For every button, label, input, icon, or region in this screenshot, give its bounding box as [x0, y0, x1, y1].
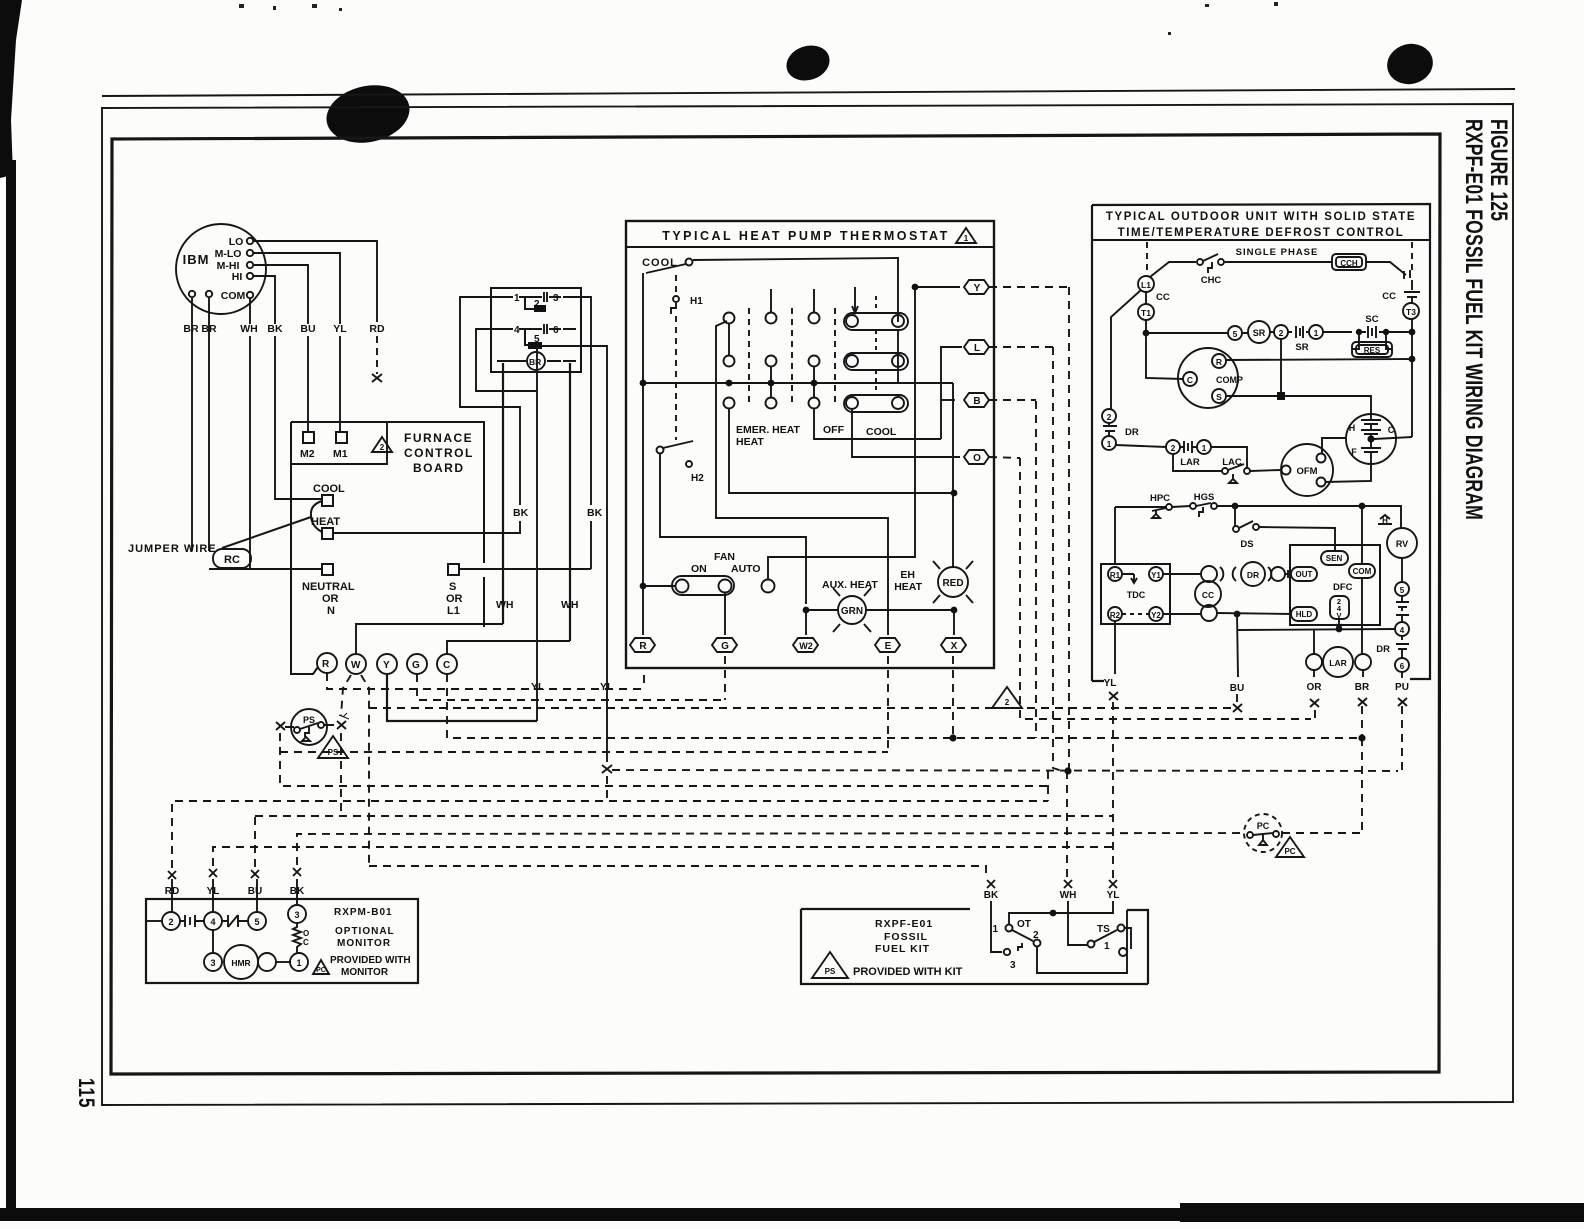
- field wire G row: [417, 656, 725, 700]
- svg-text:BK: BK: [290, 886, 305, 897]
- wire M-LO to M1 (YL): [253, 253, 340, 324]
- svg-text:RV: RV: [1396, 539, 1408, 549]
- plug pair lower: [1201, 605, 1217, 621]
- wire pin5 to YL2: [541, 346, 607, 762]
- svg-text:WH: WH: [1060, 890, 1077, 901]
- switch TS: [1088, 941, 1095, 948]
- svg-text:5: 5: [534, 334, 540, 345]
- fan motor OFM: [1281, 444, 1333, 496]
- svg-text:H: H: [1349, 423, 1356, 433]
- wire BR2 to RC: [208, 297, 210, 551]
- plug connector box: [491, 288, 581, 372]
- OT top line to YL: [1009, 901, 1113, 924]
- wire BK into OT 3: [991, 901, 1002, 952]
- hex terminal O: [964, 450, 989, 464]
- junction square S-2: [1280, 339, 1282, 396]
- svg-text:6: 6: [553, 325, 559, 336]
- field wire YL monitor row: [213, 847, 1113, 866]
- field wire E row: [280, 656, 888, 752]
- top wire with CHC: [1150, 262, 1332, 277]
- svg-text:TYPICAL OUTDOOR UNIT WITH SOLI: TYPICAL OUTDOOR UNIT WITH SOLID STATE: [1106, 211, 1416, 223]
- monitor column solid stubs: [172, 879, 297, 912]
- reversing valve RV: [1387, 528, 1417, 558]
- svg-text:OR: OR: [322, 593, 339, 605]
- terminal NEUTRAL: [322, 564, 333, 575]
- svg-text:Y2: Y2: [1151, 611, 1161, 620]
- bus junction dots: [640, 380, 818, 387]
- motor terminal M-HI: [247, 262, 253, 268]
- hex terminal R: [630, 638, 655, 652]
- outdoor title: [1106, 211, 1416, 258]
- svg-text:NEUTRAL: NEUTRAL: [302, 581, 355, 593]
- svg-text:LO: LO: [229, 236, 244, 248]
- svg-text:COMP: COMP: [1216, 375, 1243, 385]
- terminal T3: [1403, 303, 1419, 319]
- svg-text:W2: W2: [799, 641, 813, 651]
- hex terminal L: [964, 340, 989, 354]
- svg-text:G: G: [721, 641, 729, 652]
- svg-text:2: 2: [1107, 412, 1112, 422]
- wire W stem to WH1: [356, 624, 503, 654]
- svg-text:HEAT: HEAT: [894, 581, 922, 593]
- wire S/L1 to BK2: [459, 568, 591, 570]
- svg-text:BK: BK: [984, 890, 999, 901]
- hex terminal B: [964, 393, 989, 407]
- svg-text:W: W: [351, 660, 361, 671]
- sensor SEN: [1321, 551, 1348, 565]
- warning triangle 1 thermostat: [956, 228, 976, 243]
- crankcase heater CCH: [1332, 254, 1366, 270]
- furnace terminal R: [317, 653, 337, 673]
- svg-text:JUMPER WIRE: JUMPER WIRE: [128, 543, 217, 555]
- svg-text:COM: COM: [221, 290, 246, 302]
- switch HGS: [1196, 503, 1211, 517]
- monitor terminal 3b: [204, 953, 222, 971]
- svg-text:M1: M1: [333, 448, 348, 460]
- svg-text:SINGLE PHASE: SINGLE PHASE: [1236, 247, 1319, 258]
- svg-text:BU: BU: [1230, 683, 1244, 694]
- svg-text:RD: RD: [369, 323, 385, 335]
- wire L1 to T1: [1145, 292, 1147, 304]
- monitor terminal 4: [204, 912, 222, 930]
- motor terminal COM: [247, 292, 253, 298]
- junction dots pressure bus: [1232, 503, 1239, 510]
- svg-text:YL: YL: [1107, 890, 1120, 901]
- svg-text:O: O: [973, 453, 981, 464]
- svg-text:M2: M2: [300, 448, 315, 460]
- field wire PC to BR: [1282, 832, 1362, 834]
- wire RED column: [952, 383, 954, 567]
- terminal HLD: [1291, 607, 1317, 621]
- wire WH1 connector to W: [502, 363, 504, 624]
- LAR bypass: [1173, 454, 1222, 471]
- wire DS to SEN: [1259, 527, 1335, 551]
- svg-text:RD: RD: [165, 886, 179, 897]
- 24V tap: [1330, 596, 1349, 619]
- svg-text:2: 2: [1171, 443, 1176, 453]
- compressor COMP: [1178, 348, 1238, 408]
- svg-text:C: C: [1187, 375, 1193, 385]
- svg-text:PC: PC: [316, 967, 326, 974]
- svg-text:HGS: HGS: [1194, 492, 1215, 503]
- svg-text:2: 2: [1033, 930, 1039, 941]
- resistor RES: [1352, 332, 1392, 349]
- svg-text:1: 1: [1104, 941, 1110, 952]
- wire OFM H lead: [1322, 438, 1347, 454]
- monitor terminal 3 (BK): [288, 905, 306, 923]
- dashed L1 lead: [1146, 242, 1148, 275]
- wire Y1 to plug: [1163, 573, 1201, 575]
- right column 5-4-DR-6: [1401, 558, 1403, 582]
- binder hole smudge center: [782, 40, 834, 86]
- connector pin 2 stub: [525, 297, 536, 309]
- wire M-HI to M2 (BU): [253, 265, 308, 324]
- thermostat title rule: [626, 246, 994, 248]
- inner figure frame: [111, 134, 1440, 1074]
- outer page rule top: [102, 89, 1515, 96]
- wire pin3 to BK2: [576, 297, 591, 505]
- start relay bus: [1146, 332, 1412, 333]
- svg-text:HLD: HLD: [1296, 610, 1313, 619]
- wire color labels motor: [183, 236, 385, 566]
- hex terminal X: [941, 638, 966, 652]
- svg-text:Y: Y: [974, 283, 981, 294]
- svg-text:COOL: COOL: [866, 426, 897, 438]
- svg-text:TS: TS: [1097, 924, 1110, 935]
- svg-text:SC: SC: [1365, 314, 1378, 325]
- svg-text:OFM: OFM: [1296, 466, 1317, 477]
- kit column labels: [984, 890, 1120, 901]
- contact bars 2-4: [180, 915, 204, 927]
- svg-text:LAR: LAR: [1180, 457, 1200, 468]
- svg-text:CCH: CCH: [1340, 259, 1358, 268]
- field wire O-OR row: [1020, 458, 1315, 719]
- svg-text:PC: PC: [1257, 821, 1270, 831]
- field wire PU riser: [1401, 706, 1403, 771]
- svg-text:R: R: [322, 659, 330, 670]
- svg-text:1: 1: [1202, 443, 1207, 453]
- wire B hex stub: [941, 399, 955, 401]
- terminal M1: [336, 432, 347, 443]
- outer page frame: [102, 104, 1513, 1105]
- svg-text:BR: BR: [1355, 682, 1370, 693]
- heater symbol RV: [1378, 515, 1392, 524]
- defrost relay DR: [1233, 567, 1236, 581]
- svg-text:O: O: [303, 929, 309, 938]
- svg-text:S: S: [1216, 392, 1222, 402]
- mode contacts row3: [724, 398, 735, 409]
- svg-text:RC: RC: [224, 554, 240, 566]
- mode switch wiper dashes: [749, 308, 835, 404]
- svg-text:COM: COM: [1353, 567, 1372, 576]
- svg-text:T3: T3: [1406, 307, 1416, 317]
- svg-text:PS: PS: [303, 715, 315, 725]
- bottom scan bar: [0, 1208, 1584, 1221]
- svg-text:COOL: COOL: [313, 483, 345, 495]
- wire pin4 to YL1: [476, 329, 537, 391]
- lamp RED: [938, 567, 968, 597]
- field wire L-PS row: [280, 347, 1062, 786]
- svg-text:3: 3: [553, 293, 559, 304]
- wire RD lead with x: [376, 336, 378, 374]
- fan AUTO contact: [762, 580, 775, 593]
- field wire Y-BU row: [369, 708, 1233, 721]
- plug pair upper: [1201, 566, 1217, 582]
- svg-text:N: N: [327, 605, 335, 617]
- svg-text:AUX. HEAT: AUX. HEAT: [822, 579, 878, 591]
- fan capacitor: [1346, 414, 1396, 464]
- svg-text:1: 1: [1314, 328, 1319, 338]
- TDC R2-Y2 dashes: [1122, 613, 1149, 615]
- binder hole smudge left: [321, 78, 415, 150]
- svg-text:GRN: GRN: [841, 606, 863, 617]
- outdoor drop labels: [1104, 678, 1409, 694]
- wire neutral: [210, 568, 322, 570]
- lamp BR: [527, 352, 545, 370]
- svg-text:1: 1: [992, 924, 998, 935]
- mode contacts row1: [724, 313, 735, 324]
- OT 2 to box loop: [1037, 910, 1127, 973]
- wire R to rail: [1226, 359, 1412, 360]
- svg-text:5: 5: [254, 917, 259, 927]
- wire HI to COOL (BK): [253, 276, 275, 324]
- junction dot Y: [912, 284, 919, 291]
- warning triangle 2 furnace: [372, 437, 392, 452]
- jumper callout arrow: [222, 517, 311, 548]
- svg-text:RXPM-B01: RXPM-B01: [334, 907, 393, 918]
- contact SR: [1296, 326, 1303, 338]
- field wire W split right: [361, 675, 369, 866]
- wire LAR to LAC: [1211, 447, 1247, 468]
- wire T1 to bus: [1145, 320, 1147, 333]
- terminal L1: [1138, 276, 1154, 292]
- svg-text:HPC: HPC: [1150, 493, 1170, 504]
- lockout relay LAR assembly: [1306, 654, 1322, 670]
- outdoor unit box: [1092, 204, 1430, 681]
- wire OFF stem to B: [814, 409, 941, 439]
- svg-text:X: X: [951, 641, 958, 652]
- svg-text:PU: PU: [1395, 682, 1409, 693]
- svg-text:LAC: LAC: [1222, 457, 1242, 468]
- svg-text:CC: CC: [1156, 292, 1170, 303]
- wire YL1 to Y terminal: [387, 674, 537, 721]
- R bus: [643, 382, 953, 384]
- wire Y hex to AUTO: [768, 287, 960, 580]
- switch HPC: [1152, 508, 1166, 518]
- G stem: [724, 593, 726, 635]
- hex terminal W2: [793, 638, 818, 652]
- wire S to fan cap: [1226, 396, 1371, 414]
- wire LAC to OFM: [1250, 470, 1281, 471]
- start relay SR: [1248, 321, 1270, 343]
- wire pin1 to BK1: [460, 297, 520, 505]
- wire WH2 connector to C: [569, 363, 571, 641]
- oval column wire down: [897, 330, 899, 383]
- wire COOL to oval column: [693, 258, 898, 322]
- wire COM to neutral (WH): [249, 298, 251, 324]
- svg-text:B: B: [973, 396, 980, 407]
- svg-text:L1: L1: [1141, 280, 1151, 290]
- run capacitor RC: [213, 549, 251, 568]
- wire WH into TS: [1068, 901, 1087, 945]
- svg-text:PROVIDED WITH: PROVIDED WITH: [330, 955, 411, 966]
- svg-text:3: 3: [210, 958, 215, 968]
- svg-text:S: S: [449, 581, 456, 593]
- terminal OUT: [1291, 567, 1317, 581]
- svg-text:2: 2: [1005, 698, 1010, 707]
- svg-text:ON: ON: [691, 563, 707, 575]
- svg-text:C: C: [303, 938, 309, 947]
- svg-text:SR: SR: [1253, 328, 1266, 338]
- terminal 5: [1228, 326, 1242, 340]
- svg-text:YL: YL: [1104, 678, 1117, 689]
- defrost control DFC box: [1290, 545, 1380, 625]
- X stem: [953, 610, 955, 635]
- wire bus to RV: [1362, 506, 1401, 528]
- svg-text:4: 4: [1400, 626, 1405, 635]
- wire BU drop: [1237, 614, 1238, 677]
- column links: [729, 323, 814, 397]
- connector pin 5 stub: [525, 329, 534, 345]
- motor terminal HI: [247, 273, 253, 279]
- wire 24V bottom line: [1238, 629, 1395, 630]
- svg-text:CC: CC: [1382, 291, 1396, 302]
- svg-text:115: 115: [73, 1078, 98, 1108]
- blower motor IBM: [176, 224, 266, 314]
- switch OT: [1006, 925, 1013, 932]
- svg-text:1: 1: [964, 234, 969, 243]
- terminal COM: [1349, 564, 1375, 578]
- top scan specks: [239, 2, 1278, 35]
- wire cap to rail: [1374, 437, 1412, 439]
- svg-text:FURNACE: FURNACE: [404, 431, 473, 445]
- svg-text:G: G: [412, 660, 420, 671]
- svg-text:HMR: HMR: [231, 958, 250, 968]
- wire HEAT to BK1: [333, 532, 521, 534]
- contact 2-DR-1: [1102, 409, 1116, 423]
- wire C stem to WH2: [447, 641, 570, 654]
- svg-text:H1: H1: [690, 296, 703, 307]
- wire L hex column: [941, 347, 962, 439]
- svg-text:MONITOR: MONITOR: [341, 967, 389, 978]
- svg-text:6: 6: [1400, 662, 1405, 671]
- motor terminal M-LO: [247, 250, 253, 256]
- lamp line W2-GRN-RED-X: [806, 609, 954, 611]
- svg-text:OFF: OFF: [823, 424, 845, 436]
- svg-text:BK: BK: [513, 507, 529, 519]
- pressure control PC: [1244, 814, 1282, 852]
- svg-text:E: E: [885, 641, 892, 652]
- capacitor CC right: [1404, 292, 1420, 303]
- warning triangle PC: [1276, 837, 1304, 857]
- dashed field wiring web: [172, 287, 1402, 878]
- svg-text:PROVIDED WITH KIT: PROVIDED WITH KIT: [853, 966, 963, 978]
- svg-text:4: 4: [514, 325, 520, 336]
- furnace terminal W: [346, 654, 366, 674]
- furnace terminal C: [437, 654, 457, 674]
- furnace control board box: [291, 422, 484, 674]
- terminal M2: [303, 432, 314, 443]
- svg-text:AUTO: AUTO: [731, 563, 761, 575]
- wire 2 into box edge: [146, 920, 162, 922]
- svg-text:H: H: [1382, 516, 1388, 525]
- terminal 3 mark: [1404, 270, 1412, 290]
- svg-text:OPTIONAL: OPTIONAL: [335, 926, 395, 937]
- motor terminal BR2: [206, 291, 212, 297]
- contact SC: [1356, 329, 1362, 335]
- svg-text:TYPICAL HEAT PUMP THERMOSTAT: TYPICAL HEAT PUMP THERMOSTAT: [662, 229, 950, 243]
- x marks kit columns: [987, 880, 995, 888]
- svg-text:RXPF-E01: RXPF-E01: [875, 918, 933, 930]
- kit box RXPF-E01: [801, 909, 1148, 984]
- field wire Y node row: [612, 287, 1398, 878]
- binder hole smudge right: [1383, 39, 1437, 89]
- connector BR lamp row: [497, 360, 576, 362]
- svg-text:BR: BR: [529, 357, 541, 367]
- svg-text:DR: DR: [1376, 644, 1390, 655]
- x marks monitor columns: [168, 871, 176, 879]
- svg-text:Y: Y: [383, 660, 390, 671]
- svg-text:HEAT: HEAT: [311, 516, 340, 528]
- svg-text:PC: PC: [1284, 847, 1295, 856]
- field wire BK monitor PC row: [297, 833, 1244, 865]
- left rail R: [642, 273, 644, 635]
- svg-text:M-LO: M-LO: [215, 248, 242, 260]
- svg-text:Y1: Y1: [1151, 571, 1161, 580]
- right rail T3 down: [1411, 319, 1413, 437]
- junction dots lamp line: [803, 607, 810, 614]
- svg-text:RED: RED: [942, 578, 963, 589]
- svg-text:C: C: [443, 660, 450, 671]
- wire LO to RD column: [253, 241, 377, 322]
- svg-text:WH: WH: [240, 323, 258, 335]
- wire row3 col1 to RED node: [729, 409, 954, 493]
- hex terminal G: [712, 638, 737, 652]
- svg-text:3: 3: [294, 910, 299, 920]
- svg-text:R: R: [639, 641, 647, 652]
- svg-text:EH: EH: [900, 569, 915, 581]
- svg-text:YL: YL: [531, 681, 545, 693]
- motor terminal LO: [247, 238, 253, 244]
- svg-text:BK: BK: [267, 323, 283, 335]
- svg-text:FUEL KIT: FUEL KIT: [875, 943, 930, 955]
- wire COM column: [1361, 506, 1363, 654]
- x mark RD: [372, 374, 382, 382]
- resistor monitor: [293, 923, 301, 953]
- heat anticipator H1: [675, 275, 677, 440]
- svg-text:L1: L1: [447, 605, 460, 617]
- wire EMER row1 to E: [716, 321, 888, 635]
- wire 1 to LAR: [1116, 445, 1166, 447]
- svg-text:2: 2: [380, 443, 385, 452]
- svg-text:C: C: [1388, 425, 1395, 435]
- row1 stubs: [771, 287, 855, 313]
- connector pin 4 row: [497, 328, 576, 330]
- svg-text:WH: WH: [496, 599, 514, 611]
- svg-text:4: 4: [210, 917, 215, 927]
- wire bus to C: [1146, 333, 1183, 379]
- svg-text:BR: BR: [201, 323, 217, 335]
- svg-text:DR: DR: [1247, 570, 1259, 580]
- field wire BU monitor riser: [254, 816, 256, 867]
- jumper wire COOL-HEAT: [311, 501, 322, 532]
- connector pin labels: [514, 293, 559, 367]
- warning triangle 2 field: [992, 687, 1022, 708]
- svg-text:MONITOR: MONITOR: [337, 938, 391, 949]
- svg-text:EMER. HEAT: EMER. HEAT: [736, 424, 801, 436]
- svg-text:R1: R1: [1110, 571, 1121, 580]
- svg-text:L: L: [974, 343, 980, 354]
